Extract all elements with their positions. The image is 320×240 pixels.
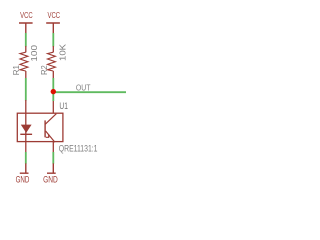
svg-text:VCC: VCC xyxy=(48,10,61,20)
svg-text:U1: U1 xyxy=(59,101,68,111)
svg-text:QRE11131:1: QRE11131:1 xyxy=(59,142,98,153)
svg-text:10K: 10K xyxy=(58,43,67,61)
svg-text:VCC: VCC xyxy=(20,10,33,20)
svg-text:100: 100 xyxy=(30,44,39,61)
svg-text:R2: R2 xyxy=(40,65,49,75)
svg-text:GND: GND xyxy=(16,175,30,185)
svg-text:OUT: OUT xyxy=(76,83,91,93)
svg-text:R1: R1 xyxy=(12,65,21,76)
svg-text:GND: GND xyxy=(43,175,58,185)
